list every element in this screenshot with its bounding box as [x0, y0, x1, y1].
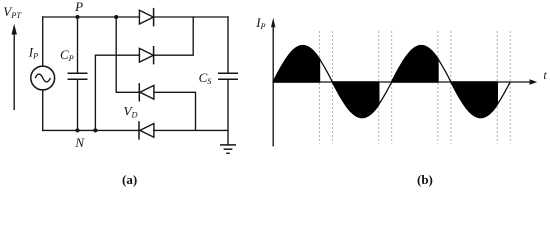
diode D2 [139, 48, 153, 62]
dashed gridline 7 [496, 31, 498, 144]
voltage arrow VPT [13, 34, 15, 111]
dashed gridline 8 [509, 31, 511, 144]
ground [220, 144, 236, 146]
node N junction dot [75, 128, 79, 132]
dashed gridline 1 [318, 31, 320, 144]
filled lobe 1 [273, 46, 319, 82]
capacitor CP plates [68, 72, 88, 74]
sine outline Ip waveform [273, 46, 510, 118]
junction dot P to diode branch [114, 15, 118, 19]
wire left branch current source top lead [42, 17, 44, 66]
svg-text:P: P [74, 0, 83, 14]
diode D3 [140, 85, 154, 99]
dashed gridline 6 [450, 31, 452, 144]
wire Cp bottom lead [77, 79, 79, 130]
wire left branch current source bottom lead [42, 90, 44, 131]
wire D2 cathode up to rectified rail [154, 17, 194, 55]
dashed gridline 3 [378, 31, 380, 144]
wire top rail right segment after diode D1 [154, 16, 228, 18]
wire vertical node P to D3 cathode [116, 17, 139, 92]
current source sine symbol [35, 74, 50, 82]
y axis [272, 27, 274, 147]
dashed gridline 4 [391, 31, 393, 144]
junction dot N to D2 branch [93, 128, 97, 132]
diode D4 [140, 124, 154, 138]
svg-text:N: N [74, 135, 85, 150]
current source IP circle [31, 66, 55, 90]
filled lobe 3 [392, 46, 438, 82]
filled lobe 4 [451, 82, 497, 118]
filled lobe 2 [332, 82, 378, 118]
dashed gridline 2 [331, 31, 333, 144]
wire bottom rail node N left segment [43, 129, 139, 131]
wire bottom rail right segment after diode D4 [154, 129, 228, 131]
x axis [273, 81, 530, 83]
diode D1 [139, 10, 153, 24]
wire D3 anode down to ground rail [154, 92, 196, 130]
wire Cs top lead [227, 17, 229, 73]
capacitor CS plates [218, 72, 238, 74]
wire top rail node P left segment [43, 16, 140, 18]
wire Cp top lead [77, 17, 79, 73]
svg-text:(a): (a) [122, 172, 137, 187]
wire Cs bottom lead to ground [227, 79, 229, 144]
svg-text:(b): (b) [417, 172, 433, 187]
wire D2 anode to node N [95, 55, 139, 130]
dashed gridline 5 [437, 31, 439, 144]
node P junction dot [75, 15, 79, 19]
